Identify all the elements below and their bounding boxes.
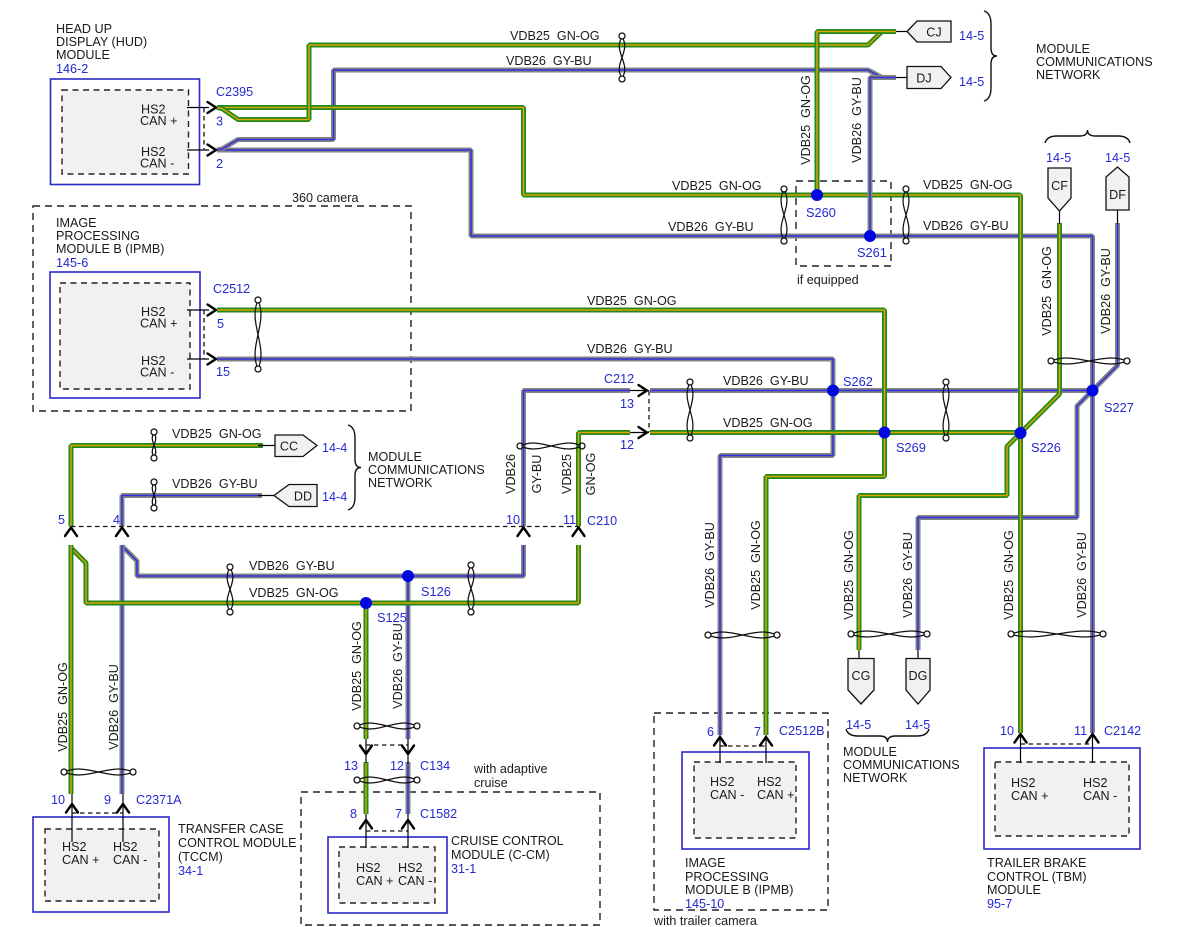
connector C212 pins 13 and 12 xyxy=(604,372,649,452)
wire VDB25 GN-OG from IPMB C2512 pin 5 to S269 xyxy=(217,310,885,433)
svg-text:S126: S126 xyxy=(421,584,451,599)
svg-text:VDB25: VDB25 xyxy=(560,454,574,494)
svg-text:14-5: 14-5 xyxy=(1046,151,1071,165)
twisted pair marker above C210 pins xyxy=(517,443,585,449)
splice S126 xyxy=(402,570,451,599)
wire VDB25 GN-OG from HUD pin 3 to CJ connector xyxy=(217,32,896,120)
svg-text:12: 12 xyxy=(620,438,634,452)
svg-text:CAN +: CAN + xyxy=(757,788,794,802)
module CRUISE CONTROL MODULE (C-CM) 31-1 xyxy=(328,837,447,913)
wire VDB26 GY-BU from S126 to C134 pin 12 xyxy=(406,576,411,739)
svg-text:CAN -: CAN - xyxy=(140,366,174,380)
svg-text:VDB26 GY-BU: VDB26 GY-BU xyxy=(107,664,121,750)
svg-text:15: 15 xyxy=(216,365,230,379)
svg-text:VDB26 GY-BU: VDB26 GY-BU xyxy=(1099,248,1113,334)
svg-text:10: 10 xyxy=(506,513,520,527)
svg-text:360 camera: 360 camera xyxy=(292,191,359,205)
svg-text:VDB26 GY-BU: VDB26 GY-BU xyxy=(923,219,1009,233)
svg-text:HEAD UP: HEAD UP xyxy=(56,22,112,36)
svg-text:CONTROL MODULE: CONTROL MODULE xyxy=(178,836,296,850)
wire VDB25 GN-OG from inline pin 5 to CC connector xyxy=(71,446,263,527)
svg-text:CF: CF xyxy=(1051,179,1068,193)
svg-text:S262: S262 xyxy=(843,374,873,389)
svg-text:VDB25 GN-OG: VDB25 GN-OG xyxy=(249,586,339,600)
svg-text:HS2: HS2 xyxy=(757,775,782,789)
svg-text:10: 10 xyxy=(1000,724,1014,738)
svg-text:CRUISE CONTROL: CRUISE CONTROL xyxy=(451,834,564,848)
svg-text:HS2: HS2 xyxy=(398,861,423,875)
svg-text:VDB26: VDB26 xyxy=(504,454,518,494)
twisted pair marker on C212 wires xyxy=(687,379,693,441)
svg-text:MODULE B (IPMB): MODULE B (IPMB) xyxy=(56,242,164,256)
svg-text:VDB26 GY-BU: VDB26 GY-BU xyxy=(901,532,915,618)
module TRANSFER CASE CONTROL MODULE (TCCM) 34-1 xyxy=(33,817,169,912)
dashed box 360 camera xyxy=(33,206,411,411)
svg-text:CC: CC xyxy=(280,440,298,454)
module TRAILER BRAKE CONTROL (TBM) 95-7 xyxy=(984,748,1140,849)
twisted pair marker on CF/DF risers xyxy=(1048,358,1130,364)
wire VDB25 GN-OG riser from CJ to splice S260 xyxy=(817,32,896,196)
svg-text:14-5: 14-5 xyxy=(1105,151,1130,165)
twisted pair marker above TBM xyxy=(1008,631,1106,637)
svg-text:6: 6 xyxy=(707,725,714,739)
wire VDB26 GY-BU from inline pin 4 to DD connector xyxy=(122,496,262,527)
splice S227 xyxy=(1087,385,1134,416)
wire VDB25 GN-OG from C210 pin 11 up to C212 pin 12 xyxy=(579,433,631,527)
wire VDB25 GN-OG from S269 to IPMB-10 pin 7 xyxy=(766,433,885,736)
wire VDB25 GN-OG from S226 to CG connector xyxy=(859,433,1021,650)
inline connector C210 dashed line xyxy=(71,526,580,528)
svg-text:PROCESSING: PROCESSING xyxy=(685,870,769,884)
svg-text:8: 8 xyxy=(350,807,357,821)
svg-text:VDB25 GN-OG: VDB25 GN-OG xyxy=(350,621,364,711)
svg-text:GN-OG: GN-OG xyxy=(584,453,598,496)
svg-text:VDB26 GY-BU: VDB26 GY-BU xyxy=(391,623,405,709)
svg-text:NETWORK: NETWORK xyxy=(843,771,908,785)
wire VDB25 GN-OG from C212 pin 12 through S269 to S226 xyxy=(650,430,1021,435)
svg-text:14-5: 14-5 xyxy=(846,718,871,732)
svg-text:7: 7 xyxy=(395,807,402,821)
svg-text:DISPLAY (HUD): DISPLAY (HUD) xyxy=(56,35,147,49)
svg-text:DD: DD xyxy=(294,490,312,504)
svg-text:C134: C134 xyxy=(420,759,450,773)
connector C210 pin 4 xyxy=(113,513,128,536)
brace under CG/DG xyxy=(846,729,929,742)
svg-text:11: 11 xyxy=(563,513,576,527)
svg-text:VDB26 GY-BU: VDB26 GY-BU xyxy=(587,342,673,356)
svg-text:VDB25 GN-OG: VDB25 GN-OG xyxy=(510,29,600,43)
svg-text:C2395: C2395 xyxy=(216,85,253,99)
brace over CF/DF xyxy=(1045,130,1130,143)
svg-text:DF: DF xyxy=(1109,188,1126,202)
svg-text:DJ: DJ xyxy=(916,72,931,86)
svg-text:MODULE: MODULE xyxy=(987,883,1041,897)
connector C210 pin 5 xyxy=(58,513,77,536)
svg-text:if equipped: if equipped xyxy=(797,273,859,287)
wire VDB26 GY-BU from S227 to TBM pin 11 xyxy=(1090,391,1095,734)
svg-text:14-5: 14-5 xyxy=(959,75,984,89)
svg-text:MODULE: MODULE xyxy=(843,745,897,759)
connector C2512 pins 5 and 15 xyxy=(187,282,250,379)
svg-text:34-1: 34-1 xyxy=(178,864,203,878)
svg-text:COMMUNICATIONS: COMMUNICATIONS xyxy=(368,463,485,477)
svg-text:VDB25 GN-OG: VDB25 GN-OG xyxy=(923,178,1013,192)
svg-text:CJ: CJ xyxy=(926,26,941,40)
svg-text:2: 2 xyxy=(216,157,223,171)
dashed box with trailer camera xyxy=(654,713,828,910)
svg-text:VDB26 GY-BU: VDB26 GY-BU xyxy=(703,522,717,608)
twisted pair marker right of S126 xyxy=(468,562,474,615)
svg-text:9: 9 xyxy=(104,793,111,807)
connector C1582 pins 8 and 7 xyxy=(350,807,457,848)
twisted pair marker on DD wire xyxy=(151,479,157,511)
svg-text:31-1: 31-1 xyxy=(451,862,476,876)
wire VDB25 GN-OG riser from CF to S226 xyxy=(1021,223,1060,433)
svg-text:CAN -: CAN - xyxy=(710,788,744,802)
svg-text:DG: DG xyxy=(909,669,928,683)
splice S226 xyxy=(1015,427,1061,455)
svg-text:145-6: 145-6 xyxy=(56,256,88,270)
svg-text:C1582: C1582 xyxy=(420,807,457,821)
module HEAD UP DISPLAY (HUD) 146-2 xyxy=(51,79,200,185)
svg-text:CAN +: CAN + xyxy=(356,874,393,888)
splice S262 xyxy=(827,374,873,397)
svg-text:3: 3 xyxy=(216,115,223,129)
svg-text:HS2: HS2 xyxy=(356,861,381,875)
svg-text:MODULE B (IPMB): MODULE B (IPMB) xyxy=(685,883,793,897)
svg-text:C2371A: C2371A xyxy=(136,793,182,807)
svg-text:7: 7 xyxy=(754,725,761,739)
svg-text:C212: C212 xyxy=(604,372,634,386)
svg-text:5: 5 xyxy=(58,513,65,527)
svg-text:S227: S227 xyxy=(1104,400,1134,415)
svg-text:5: 5 xyxy=(217,317,224,331)
dashed box if equipped xyxy=(796,181,891,266)
svg-text:CAN -: CAN - xyxy=(113,853,147,867)
svg-text:CAN -: CAN - xyxy=(140,157,174,171)
svg-text:with adaptive: with adaptive xyxy=(473,762,548,776)
svg-text:C2142: C2142 xyxy=(1104,724,1141,738)
svg-text:NETWORK: NETWORK xyxy=(368,476,433,490)
svg-text:CAN -: CAN - xyxy=(1083,789,1117,803)
svg-text:145-10: 145-10 xyxy=(685,897,724,911)
wire VDB26 GY-BU from S227 to DG connector xyxy=(918,391,1093,651)
svg-text:HS2: HS2 xyxy=(1011,776,1036,790)
connector C2512B pins 6 and 7 xyxy=(707,724,825,763)
module IMAGE PROCESSING MODULE B (IPMB) 145-10 xyxy=(682,752,809,849)
svg-text:VDB25 GN-OG: VDB25 GN-OG xyxy=(672,179,762,193)
twisted pair marker between C134 and C1582 xyxy=(354,777,420,783)
off-page connector CJ xyxy=(896,21,984,43)
svg-text:S226: S226 xyxy=(1031,440,1061,455)
svg-text:C2512B: C2512B xyxy=(779,724,825,738)
svg-text:C210: C210 xyxy=(587,514,617,528)
svg-text:VDB26 GY-BU: VDB26 GY-BU xyxy=(249,559,335,573)
svg-text:GY-BU: GY-BU xyxy=(530,455,544,494)
brace for CJ/DJ module communications network xyxy=(984,11,997,101)
svg-text:12: 12 xyxy=(390,759,404,773)
svg-text:VDB26 GY-BU: VDB26 GY-BU xyxy=(850,77,864,163)
connector C134 pins 13 and 12 xyxy=(344,739,450,773)
svg-text:C2512: C2512 xyxy=(213,282,250,296)
off-page connector DD xyxy=(258,485,347,507)
svg-text:MODULE: MODULE xyxy=(56,48,110,62)
wire VDB26 GY-BU from C212 pin 13 through S262 to S227 xyxy=(650,388,1093,393)
svg-text:VDB26 GY-BU: VDB26 GY-BU xyxy=(172,477,258,491)
svg-text:MODULE: MODULE xyxy=(1036,42,1090,56)
svg-text:VDB25 GN-OG: VDB25 GN-OG xyxy=(1040,246,1054,336)
svg-text:S125: S125 xyxy=(377,610,407,625)
twisted pair marker above TCCM xyxy=(61,769,136,775)
svg-text:VDB26 GY-BU: VDB26 GY-BU xyxy=(506,54,592,68)
svg-text:S260: S260 xyxy=(806,205,836,220)
svg-text:14-4: 14-4 xyxy=(322,490,347,504)
svg-text:TRAILER BRAKE: TRAILER BRAKE xyxy=(987,856,1086,870)
svg-text:VDB25 GN-OG: VDB25 GN-OG xyxy=(842,530,856,620)
wire VDB26 GY-BU riser from DJ to splice S261 xyxy=(870,78,896,237)
svg-text:13: 13 xyxy=(620,397,634,411)
svg-text:MODULE (C-CM): MODULE (C-CM) xyxy=(451,848,550,862)
off-page connector DJ xyxy=(896,67,984,90)
svg-text:CAN +: CAN + xyxy=(62,853,99,867)
twisted pair marker on CJ/DJ wires xyxy=(619,33,625,82)
wire VDB26 GY-BU riser from DF to S227 xyxy=(1093,223,1118,391)
svg-text:VDB25 GN-OG: VDB25 GN-OG xyxy=(723,416,813,430)
connector C2371A pins 10 and 9 xyxy=(51,793,182,842)
svg-text:CAN -: CAN - xyxy=(398,874,432,888)
svg-text:VDB25 GN-OG: VDB25 GN-OG xyxy=(172,427,262,441)
svg-text:146-2: 146-2 xyxy=(56,62,88,76)
svg-text:S261: S261 xyxy=(857,245,887,260)
svg-text:NETWORK: NETWORK xyxy=(1036,68,1101,82)
svg-text:VDB26 GY-BU: VDB26 GY-BU xyxy=(723,374,809,388)
wire VDB26 GY-BU from C134 pin 12 to C1582 pin 7 xyxy=(406,762,411,814)
wire VDB26 GY-BU from HUD pin 2 to DJ connector xyxy=(217,70,896,150)
off-page connector CG xyxy=(846,650,874,732)
svg-text:14-5: 14-5 xyxy=(959,29,984,43)
twisted pair marker above IPMB-10 xyxy=(705,632,780,638)
svg-text:14-4: 14-4 xyxy=(322,441,347,455)
svg-text:4: 4 xyxy=(113,513,120,527)
twisted pair marker on C2512 wires xyxy=(255,297,261,372)
wire VDB26 GY-BU from C210 pin 10 down through S126 to inline pin 4 xyxy=(122,545,524,576)
svg-text:IMAGE: IMAGE xyxy=(685,856,726,870)
svg-text:CAN +: CAN + xyxy=(1011,789,1048,803)
twisted pair marker above CG/DG xyxy=(848,631,930,637)
splice S261 xyxy=(857,230,887,260)
wire VDB26 GY-BU from IPMB C2512 pin 15 to S262 xyxy=(217,359,833,391)
svg-text:HS2: HS2 xyxy=(1083,776,1108,790)
svg-text:13: 13 xyxy=(344,759,358,773)
svg-text:HS2: HS2 xyxy=(113,840,138,854)
wire VDB26 GY-BU from S262 to IPMB-10 pin 6 xyxy=(720,391,833,736)
wire VDB25 GN-OG from C210 pin 11 down through S125 to inline pin 5 xyxy=(71,545,579,603)
wire VDB26 GY-BU riser overlay at green crossing xyxy=(868,187,873,236)
svg-text:COMMUNICATIONS: COMMUNICATIONS xyxy=(1036,55,1153,69)
wire VDB25 GN-OG from HUD pin 3 to S226 via S260 xyxy=(217,108,1021,434)
svg-text:VDB26 GY-BU: VDB26 GY-BU xyxy=(1075,532,1089,618)
twisted pair marker above C134 xyxy=(354,723,420,729)
svg-text:14-5: 14-5 xyxy=(905,718,930,732)
svg-text:VDB25 GN-OG: VDB25 GN-OG xyxy=(1002,530,1016,620)
connector C2142 pins 10 and 11 xyxy=(1000,724,1141,763)
svg-text:cruise: cruise xyxy=(474,776,508,790)
splice S269 xyxy=(879,427,926,456)
svg-text:VDB25 GN-OG: VDB25 GN-OG xyxy=(799,75,813,165)
twisted pair marker on S125/S126 feeders xyxy=(227,564,233,615)
connector C210 pin 11 xyxy=(563,513,617,536)
off-page connector CF xyxy=(1046,151,1071,224)
wire VDB25 GN-OG from S226 to TBM pin 10 xyxy=(1018,433,1023,733)
svg-text:PROCESSING: PROCESSING xyxy=(56,229,140,243)
wire VDB26 GY-BU from C210 pin 10 to C212 pin 13 and S227 via S262 xyxy=(524,391,631,527)
svg-text:95-7: 95-7 xyxy=(987,897,1012,911)
svg-text:(TCCM): (TCCM) xyxy=(178,850,223,864)
svg-text:with trailer camera: with trailer camera xyxy=(653,914,757,927)
wire VDB25 GN-OG from C134 pin 13 to C1582 pin 8 xyxy=(364,762,369,814)
svg-text:10: 10 xyxy=(51,793,65,807)
twisted pair marker on CC wire xyxy=(151,429,157,461)
off-page connector DG xyxy=(905,650,930,732)
svg-text:CAN +: CAN + xyxy=(140,114,177,128)
wire VDB26 GY-BU from inline pin 4 to TCCM pin 9 xyxy=(120,545,125,794)
module IMAGE PROCESSING MODULE B (IPMB) 145-6 xyxy=(50,272,200,398)
dashed box with adaptive cruise xyxy=(301,792,600,925)
brace for CC/DD module communications network xyxy=(348,425,361,510)
splice S260 xyxy=(806,189,836,220)
svg-text:CAN +: CAN + xyxy=(140,317,177,331)
twisted pair marker right of if-equipped box xyxy=(903,186,909,244)
wire VDB25 GN-OG from inline pin 5 to TCCM pin 10 xyxy=(69,545,74,794)
svg-text:VDB25 GN-OG: VDB25 GN-OG xyxy=(587,294,677,308)
svg-text:VDB25 GN-OG: VDB25 GN-OG xyxy=(56,662,70,752)
twisted pair marker between S269 and S226 xyxy=(943,379,949,441)
off-page connector CC xyxy=(258,435,347,457)
svg-text:VDB26 GY-BU: VDB26 GY-BU xyxy=(668,220,754,234)
twisted pair marker left of if-equipped box xyxy=(781,186,787,244)
svg-text:CG: CG xyxy=(852,669,871,683)
wire VDB26 GY-BU from HUD pin 2 to S227 via S261 xyxy=(217,150,1093,391)
svg-text:TRANSFER CASE: TRANSFER CASE xyxy=(178,822,284,836)
svg-text:MODULE: MODULE xyxy=(368,450,422,464)
connector C210 pin 10 xyxy=(506,513,530,536)
svg-text:HS2: HS2 xyxy=(62,840,87,854)
svg-text:CONTROL (TBM): CONTROL (TBM) xyxy=(987,870,1087,884)
off-page connector DF xyxy=(1105,151,1130,224)
svg-text:VDB25 GN-OG: VDB25 GN-OG xyxy=(749,520,763,610)
svg-text:COMMUNICATIONS: COMMUNICATIONS xyxy=(843,758,960,772)
splice S125 xyxy=(360,597,407,625)
wire VDB25 GN-OG from S125 to C134 pin 13 xyxy=(364,603,369,739)
svg-text:IMAGE: IMAGE xyxy=(56,216,97,230)
svg-text:11: 11 xyxy=(1074,724,1087,738)
svg-text:S269: S269 xyxy=(896,440,926,455)
connector C2395 pins 3 and 2 xyxy=(187,85,253,171)
svg-text:HS2: HS2 xyxy=(710,775,735,789)
